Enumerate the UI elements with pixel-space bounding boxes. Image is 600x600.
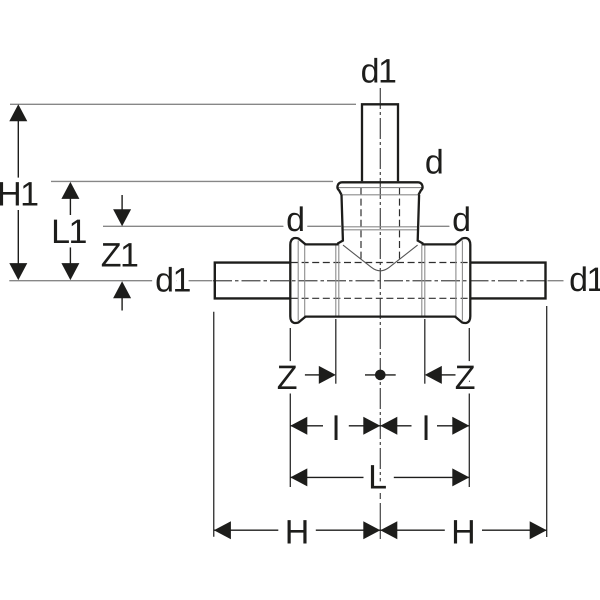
hidden bore line bottom bbox=[291, 297, 469, 299]
branch pipe d1 bbox=[362, 104, 398, 181]
vertical extension line left socket end bbox=[335, 319, 337, 384]
svg-text:d1: d1 bbox=[361, 53, 396, 91]
svg-text:l: l bbox=[332, 410, 338, 448]
branch socket walls bbox=[338, 195, 343, 245]
main pipe right bbox=[470, 263, 546, 299]
dimension L1 bbox=[69, 190, 71, 271]
tee body outline right socket bbox=[455, 238, 470, 323]
svg-text:d1: d1 bbox=[155, 262, 190, 300]
svg-text:Z: Z bbox=[455, 359, 475, 397]
dimension L bbox=[290, 476, 363, 478]
svg-text:H1: H1 bbox=[0, 175, 38, 213]
vertical extension line right pipe end bbox=[546, 306, 548, 537]
main axis extension left bbox=[9, 280, 212, 282]
main axis extension right bbox=[548, 280, 564, 282]
bore intersection V bbox=[343, 245, 418, 271]
dimension Z1 (outside arrows) bbox=[121, 195, 123, 311]
centerline main axis bbox=[213, 280, 547, 282]
svg-text:Z1: Z1 bbox=[101, 237, 138, 275]
svg-text:L1: L1 bbox=[51, 213, 86, 251]
thin line inside branch bead bbox=[338, 187, 422, 189]
witness pair branch socket bbox=[343, 226, 418, 228]
hidden bore line top bbox=[291, 262, 469, 264]
svg-text:d: d bbox=[286, 201, 303, 239]
center reference dot bbox=[365, 374, 396, 376]
vertical extension line right bead bbox=[468, 328, 470, 487]
thin line left bead end bbox=[304, 244, 306, 316]
branch socket bead outline bbox=[337, 182, 422, 195]
witness pair left socket bbox=[335, 244, 337, 316]
dimension H right bbox=[380, 529, 445, 531]
dimension Z left bbox=[305, 374, 319, 376]
witness pair right socket bbox=[421, 244, 423, 316]
hidden branch bore left bbox=[360, 188, 362, 262]
vertical extension line left pipe end bbox=[213, 312, 215, 537]
main pipe left bbox=[215, 263, 290, 299]
svg-text:d: d bbox=[425, 143, 442, 181]
svg-text:L: L bbox=[368, 459, 386, 497]
tee body bottom edge bbox=[305, 315, 456, 317]
thin line inside right bead bbox=[461, 241, 463, 321]
vertical extension line left bead bbox=[289, 328, 291, 487]
extension line branch socket depth (Z1 datum) bbox=[103, 225, 341, 227]
vertical extension line right socket end bbox=[424, 319, 426, 384]
thin line right bead end bbox=[455, 244, 457, 316]
hidden branch bore right bbox=[399, 188, 401, 262]
tee body outline left socket bbox=[290, 238, 305, 323]
svg-text:d: d bbox=[452, 201, 469, 239]
thin line inside left bead bbox=[297, 241, 299, 321]
tee body top edges bbox=[305, 243, 339, 245]
svg-text:Z: Z bbox=[277, 359, 297, 397]
svg-text:d1: d1 bbox=[569, 261, 600, 299]
thin line branch bead end bbox=[342, 194, 419, 196]
extension line top of branch socket bead (L1 datum) bbox=[51, 180, 333, 182]
dimension H left bbox=[214, 529, 278, 531]
dimension l right bbox=[380, 425, 411, 427]
dimension Z right bbox=[442, 374, 456, 376]
leader line to right d label bbox=[420, 225, 450, 227]
svg-text:l: l bbox=[422, 410, 428, 448]
extension line top of branch pipe (H1 datum) bbox=[10, 103, 356, 105]
svg-text:H: H bbox=[285, 514, 308, 552]
dimension H1 bbox=[17, 113, 19, 271]
centerline branch axis bbox=[379, 88, 381, 500]
svg-text:H: H bbox=[451, 514, 474, 552]
dimension l left bbox=[290, 425, 323, 427]
